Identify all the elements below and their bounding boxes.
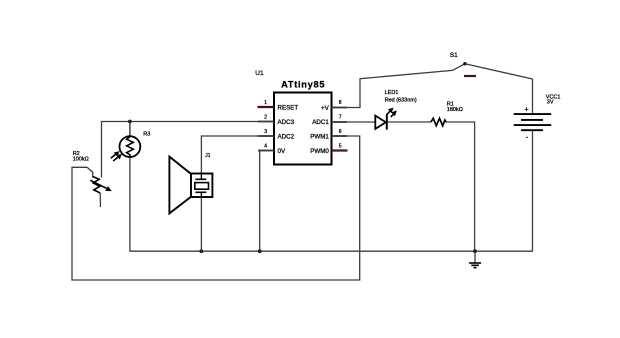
switch S1	[450, 52, 476, 76]
U1 pin 4 0V	[258, 143, 286, 155]
svg-text:ADC3: ADC3	[278, 119, 295, 126]
junction dot: 0V wire on ground bus	[258, 249, 262, 253]
svg-text:6: 6	[339, 129, 342, 135]
wire: pin7 ADC1 to LED anode	[332, 121, 376, 123]
svg-text:R3: R3	[143, 131, 150, 137]
U1 pin 1 RESET (unconnected, red stub)	[258, 100, 299, 112]
wire: pin8 +V up to switch S1	[332, 70, 453, 107]
svg-text:+V: +V	[321, 105, 330, 112]
svg-text:4: 4	[264, 143, 267, 149]
wire: battery negative down to ground bus	[532, 130, 534, 251]
svg-text:PWM0: PWM0	[310, 148, 329, 155]
svg-text:7: 7	[339, 114, 342, 120]
svg-text:1: 1	[264, 100, 267, 106]
svg-text:ADC2: ADC2	[278, 133, 295, 140]
junction dot: R3 top on ADC3 net	[128, 120, 132, 124]
wire: R1 to ground junction	[446, 122, 475, 251]
junction dot: ground node	[473, 249, 477, 253]
svg-text:3V: 3V	[547, 100, 554, 106]
photoresistor R3	[111, 131, 151, 161]
wire: R3 top lead	[129, 122, 131, 137]
svg-text:RESET: RESET	[278, 104, 299, 111]
svg-text:PWM1: PWM1	[310, 133, 329, 140]
resistor R1 180k	[431, 102, 463, 126]
svg-text:2: 2	[264, 114, 267, 120]
wire: R3 bottom lead down to ground bus	[129, 157, 131, 251]
svg-text:180kΩ: 180kΩ	[447, 107, 463, 113]
ground symbol	[469, 251, 481, 267]
wire: ground bus horizontal	[129, 250, 533, 252]
potentiometer R2 100k (rheostat)	[73, 151, 112, 207]
U1 pin 5 PWM0 (unconnected, red stub)	[310, 143, 347, 155]
speaker J1	[169, 153, 212, 213]
svg-text:0V: 0V	[278, 148, 286, 155]
svg-text:+: +	[525, 107, 529, 114]
wire: pin6 PWM1 loop to R2 terminal	[72, 136, 360, 280]
IC U1 ATtiny85 body	[255, 70, 331, 164]
U1 pin 6 PWM1	[310, 129, 347, 141]
wire: switch S1 to battery positive	[465, 64, 533, 114]
battery VCC1 3V	[514, 94, 561, 141]
svg-text:8: 8	[339, 100, 342, 106]
svg-text:J1: J1	[205, 153, 211, 159]
svg-text:ATtiny85: ATtiny85	[281, 80, 325, 90]
svg-text:5: 5	[339, 143, 342, 149]
svg-text:Red (633nm): Red (633nm)	[385, 97, 417, 103]
svg-text:U1: U1	[255, 70, 264, 77]
U1 pin 7 ADC1	[312, 114, 347, 126]
svg-text:LED1: LED1	[385, 90, 399, 96]
svg-text:3: 3	[264, 129, 267, 135]
svg-text:ADC1: ADC1	[312, 119, 329, 126]
U1 pin 2 ADC3	[258, 114, 295, 126]
wire: speaker bottom lead	[200, 192, 202, 251]
wire: LED cathode to R1	[387, 121, 431, 123]
junction dot: speaker bottom on ground bus	[200, 249, 204, 253]
wire: pin3 ADC2 to speaker top	[201, 136, 274, 180]
svg-text:S1: S1	[450, 52, 458, 59]
wire: pin4 0V down to ground bus	[260, 151, 274, 252]
U1 pin 8 +V	[321, 100, 347, 112]
U1 pin 3 ADC2	[258, 129, 295, 141]
LED LED1 Red (633nm)	[375, 90, 417, 129]
wire: net ADC3 horizontal bus (pin2 to R3/R2)	[102, 122, 275, 178]
svg-text:100kΩ: 100kΩ	[73, 157, 89, 163]
